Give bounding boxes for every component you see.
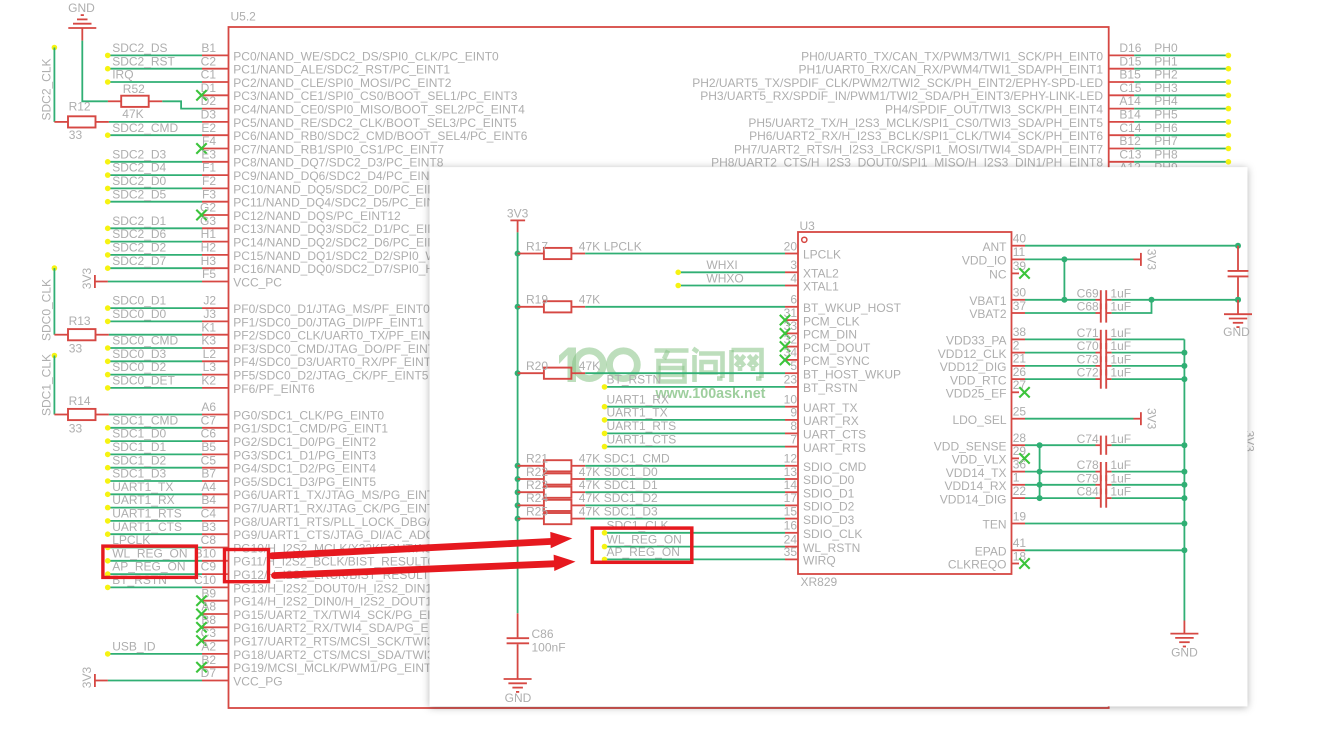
annotation arrow AP_REG_ON — [275, 555, 576, 576]
no-connect X on pin A8 — [196, 609, 206, 619]
U5.2 pin J3 (PF1) stub — [202, 320, 229, 322]
node SDC2_DS junction — [105, 53, 111, 59]
svg-text:PC5/NAND_RE/SDC2_CLK/BOOT_SEL3: PC5/NAND_RE/SDC2_CLK/BOOT_SEL3/PC_EINT5 — [233, 116, 517, 130]
svg-text:1uF: 1uF — [1110, 366, 1131, 380]
svg-text:SDC0_DET: SDC0_DET — [112, 374, 175, 388]
svg-text:33: 33 — [784, 319, 798, 333]
svg-text:C84: C84 — [1077, 485, 1099, 499]
wire net WHXO — [678, 285, 785, 287]
node WHXI junction — [675, 270, 681, 276]
svg-text:3V3: 3V3 — [1144, 408, 1158, 430]
wire net SDC1_D0 — [108, 440, 202, 442]
svg-text:47K: 47K — [579, 452, 600, 466]
node SDC2_D2 junction — [105, 252, 111, 258]
svg-text:SDC1_D2: SDC1_D2 — [112, 453, 166, 467]
node SDC0_D2 junction — [105, 372, 111, 378]
svg-text:1uF: 1uF — [1110, 286, 1131, 300]
svg-text:3V3: 3V3 — [80, 268, 94, 290]
svg-text:UART_TX: UART_TX — [803, 401, 857, 415]
capacitor C78 1uF — [1077, 458, 1131, 481]
svg-text:33: 33 — [69, 342, 83, 356]
U5.2 pin A12 (PH9) stub — [1109, 174, 1135, 176]
node 3V3 rail junction for R21 — [515, 463, 521, 469]
resistor R24 47K — [526, 491, 600, 511]
watermark 100ask logo — [559, 348, 637, 383]
svg-text:PG0/SDC1_CLK/PG_EINT0: PG0/SDC1_CLK/PG_EINT0 — [233, 408, 384, 422]
node SDC0_D3 junction — [105, 359, 111, 365]
svg-text:VCC_PC: VCC_PC — [233, 275, 282, 289]
svg-text:PCM_CLK: PCM_CLK — [803, 314, 860, 328]
U3 pin 6 (BT_WKUP_HOST) stub — [785, 306, 798, 308]
wire net AP_REG_ON — [605, 558, 786, 560]
svg-text:GND: GND — [68, 1, 95, 15]
power 3V3 supply (right) — [1134, 408, 1159, 430]
svg-text:PH7: PH7 — [1154, 134, 1178, 148]
wire R19 left lead — [518, 306, 544, 308]
wire net EPAD to rail — [1025, 549, 1184, 551]
svg-text:USB_ID: USB_ID — [112, 640, 156, 654]
node rail junction — [1181, 376, 1187, 382]
wire net SDC0_D2 — [108, 374, 202, 376]
U3 pin 38 (VDD33_PA) stub — [1012, 338, 1026, 340]
node SDC0_D1 junction — [105, 305, 111, 311]
U3 pin 26 (VDD_RTC) stub — [1012, 378, 1026, 380]
svg-text:L2: L2 — [203, 347, 217, 361]
U5.2 pin C5 (PG4) stub — [202, 467, 229, 469]
node VDD tie junction — [1037, 482, 1043, 488]
svg-text:SDIO_CMD: SDIO_CMD — [803, 460, 867, 474]
svg-text:3V3: 3V3 — [80, 667, 94, 689]
svg-text:1uF: 1uF — [1110, 326, 1131, 340]
svg-text:SDC1_D3: SDC1_D3 — [604, 504, 658, 518]
U5.2 pin L3 (PF5) stub — [202, 374, 229, 376]
U5.2 pin K2 (PF6) stub — [202, 387, 229, 389]
U5.2 pin C1 (PC2) stub — [202, 81, 229, 83]
svg-text:28: 28 — [1013, 431, 1027, 445]
U3 pin 30 (VBAT1) stub — [1012, 299, 1026, 301]
svg-text:47K: 47K — [579, 239, 600, 253]
svg-text:D7: D7 — [201, 666, 217, 680]
node SDC2_D3 junction — [105, 159, 111, 165]
svg-text:PH0/UART0_TX/CAN_TX/PWM3/TWI1_: PH0/UART0_TX/CAN_TX/PWM3/TWI1_SCK/PH_EIN… — [801, 49, 1103, 63]
svg-text:U3: U3 — [800, 219, 816, 233]
wire net PH7 — [1134, 148, 1228, 150]
wire C84 to rail — [1112, 497, 1185, 499]
svg-text:1uF: 1uF — [1110, 300, 1131, 314]
wire net USB_ID — [108, 653, 202, 655]
node UART1_TX junction — [602, 417, 608, 423]
wire R23 left lead — [518, 491, 544, 493]
svg-text:32: 32 — [784, 332, 798, 346]
U5.2 pin B1 (PC0) stub — [202, 54, 229, 56]
svg-text:D16: D16 — [1119, 41, 1141, 55]
svg-text:PG3/SDC1_D1/PG_EINT3: PG3/SDC1_D1/PG_EINT3 — [233, 448, 376, 462]
svg-text:R20: R20 — [526, 359, 548, 373]
svg-text:UART1_RX: UART1_RX — [607, 393, 669, 407]
node SDC2_CMD junction — [105, 132, 111, 138]
no-connect X on pin C3 — [196, 635, 206, 645]
node 3V3 rail junction for R20 — [515, 370, 521, 376]
svg-text:PC7/NAND_RB1/SPI0_CS1/PC_EINT7: PC7/NAND_RB1/SPI0_CS1/PC_EINT7 — [233, 142, 444, 156]
svg-text:SDC0_CMD: SDC0_CMD — [112, 334, 178, 348]
wire net to pin 14 — [585, 491, 785, 493]
svg-text:PH8: PH8 — [1154, 147, 1178, 161]
wire net BT_RSTN — [108, 586, 202, 588]
svg-text:33: 33 — [69, 128, 83, 142]
wire net WHXI — [678, 271, 785, 273]
svg-text:F2: F2 — [202, 174, 216, 188]
node SDC1_CMD junction — [105, 425, 111, 431]
wire R19 right lead to pin 6 — [571, 306, 585, 308]
svg-text:BT_HOST_WKUP: BT_HOST_WKUP — [803, 367, 901, 381]
wire net UART1_RTS — [108, 520, 202, 522]
svg-text:PF3/SDC0_CMD/JTAG_DO/PF_EINT3: PF3/SDC0_CMD/JTAG_DO/PF_EINT3 — [233, 342, 442, 356]
svg-text:1uF: 1uF — [1110, 339, 1131, 353]
svg-text:D3: D3 — [201, 108, 217, 122]
wire net LDO_SEL to 3V3 — [1025, 418, 1134, 420]
U5.2 pin A14 (PH4) stub — [1109, 108, 1135, 110]
U3 pin 33 (PCM_DIN) stub — [785, 332, 798, 334]
svg-text:C72: C72 — [1077, 366, 1099, 380]
svg-text:20: 20 — [784, 239, 798, 253]
svg-text:PC12/NAND_DQS/PC_EINT12: PC12/NAND_DQS/PC_EINT12 — [233, 209, 401, 223]
power 3V3 supply at VCC_PC — [80, 268, 108, 290]
U5.2 pin D7 (VCC_PG) stub — [202, 680, 229, 682]
no-connect X on pin B9 — [196, 596, 206, 606]
node PH9 junction — [1226, 172, 1232, 178]
svg-text:SDIO_D2: SDIO_D2 — [803, 500, 855, 514]
wire net VDD_RTC — [1025, 378, 1096, 380]
svg-text:A4: A4 — [201, 480, 216, 494]
svg-text:C2: C2 — [201, 54, 217, 68]
wire C79 to rail — [1112, 484, 1185, 486]
svg-text:PH2/UART5_TX/SPDIF_CLK/PWM2/TW: PH2/UART5_TX/SPDIF_CLK/PWM2/TWI2_SCK/PH_… — [692, 76, 1103, 90]
svg-text:27: 27 — [1013, 378, 1027, 392]
svg-text:WL_REG_ON: WL_REG_ON — [112, 546, 187, 560]
svg-text:PH6: PH6 — [1154, 121, 1178, 135]
wire R20 right lead to pin 5 — [571, 372, 585, 374]
svg-text:PG7/UART1_RX/JTAG_CK/PG_EINT7: PG7/UART1_RX/JTAG_CK/PG_EINT7 — [233, 502, 441, 516]
U3 pin 37 (VBAT2) stub — [1012, 312, 1026, 314]
svg-text:PG5/SDC1_D3/PG_EINT5: PG5/SDC1_D3/PG_EINT5 — [233, 475, 376, 489]
U5.2 pin B3 (PG9) stub — [202, 533, 229, 535]
svg-text:UART1_CTS: UART1_CTS — [607, 432, 677, 446]
wire net to pin 13 — [585, 478, 785, 480]
wire net SDC0_D0 — [108, 320, 202, 322]
wire right rail vertical — [1183, 339, 1185, 620]
node SDC2_D0 junction — [105, 186, 111, 192]
wire R23 right lead to pin 14 — [571, 491, 585, 493]
svg-text:F1: F1 — [202, 161, 216, 175]
svg-text:5: 5 — [790, 359, 797, 373]
U5.2 pin C8 (PG10) stub — [202, 547, 229, 549]
svg-text:SDC1_CMD: SDC1_CMD — [112, 413, 178, 427]
U3 pin 8 (UART_CTS) stub — [785, 432, 798, 434]
svg-text:100nF: 100nF — [532, 640, 566, 654]
wire R17 left lead — [518, 253, 544, 255]
U5.2 pin D1 (PC3) stub — [202, 94, 229, 96]
node UART1_CTS junction — [105, 531, 111, 537]
annotation box around WL_REG_ON/AP_REG_ON (left) — [103, 546, 196, 577]
wire net ANT — [1025, 245, 1238, 247]
wire R25 left lead — [518, 518, 544, 520]
svg-text:VDD33_PA: VDD33_PA — [946, 334, 1006, 348]
svg-text:NC: NC — [989, 268, 1007, 282]
capacitor C74 1uF — [1077, 432, 1131, 455]
svg-text:PCM_DOUT: PCM_DOUT — [803, 341, 871, 355]
svg-text:BT_WKUP_HOST: BT_WKUP_HOST — [803, 301, 902, 315]
svg-text:A6: A6 — [201, 400, 216, 414]
wire net to pin 5 — [585, 372, 785, 374]
svg-text:PG16/UART2_RX/TWI4_SDA/PG_EINT: PG16/UART2_RX/TWI4_SDA/PG_EINT16 — [233, 621, 461, 635]
svg-text:C74: C74 — [1077, 432, 1099, 446]
svg-text:34: 34 — [784, 346, 798, 360]
svg-text:SDC1_D1: SDC1_D1 — [112, 440, 166, 454]
svg-text:37: 37 — [1013, 299, 1027, 313]
svg-text:C1: C1 — [201, 68, 217, 82]
svg-text:R14: R14 — [69, 394, 91, 408]
capacitor C86 100nF — [507, 613, 566, 679]
svg-text:C68: C68 — [1077, 300, 1099, 314]
wire net VDD_IO to 3V3 — [1025, 258, 1134, 260]
node USB_ID junction — [105, 651, 111, 657]
svg-text:PC13/NAND_DQ3/SDC2_D1/PC_EINT1: PC13/NAND_DQ3/SDC2_D1/PC_EINT13 — [233, 222, 457, 236]
resistor R21 47K — [526, 452, 600, 472]
svg-text:C8: C8 — [201, 533, 217, 547]
wire net UART1_RX — [108, 507, 202, 509]
U5.2 pin A4 (PG6) stub — [202, 493, 229, 495]
no-connect X on pin B2 — [196, 662, 206, 672]
svg-text:SDC1_D1: SDC1_D1 — [604, 478, 658, 492]
svg-text:1uF: 1uF — [1110, 471, 1131, 485]
U3 pin 25 (LDO_SEL) stub — [1012, 418, 1026, 420]
svg-text:R21: R21 — [526, 452, 548, 466]
U5.2 pin D3 (PC5) stub — [202, 121, 229, 123]
wire VDD_SENSE tie vertical — [1039, 445, 1041, 498]
wire R12 to pin D3 — [109, 121, 202, 123]
svg-text:36: 36 — [1013, 457, 1027, 471]
wire net SDC1_D1 — [108, 453, 202, 455]
svg-text:47K: 47K — [579, 465, 600, 479]
wire net to pin 20 — [585, 253, 785, 255]
wire R52 right lead — [149, 100, 163, 102]
svg-text:PF0/SDC0_D1/JTAG_MS/PF_EINT0: PF0/SDC0_D1/JTAG_MS/PF_EINT0 — [233, 302, 430, 316]
svg-text:PH4: PH4 — [1154, 94, 1178, 108]
node rail junction — [1181, 469, 1187, 475]
svg-text:1uF: 1uF — [1110, 432, 1131, 446]
svg-text:H2: H2 — [201, 241, 217, 255]
capacitor C79 1uF — [1077, 471, 1131, 494]
node SDC1_D2 junction — [105, 465, 111, 471]
node SDC0_DET junction — [105, 385, 111, 391]
U3 pin 5 (BT_HOST_WKUP) stub — [785, 372, 798, 374]
svg-text:B7: B7 — [201, 467, 216, 481]
svg-text:UART1_CTS: UART1_CTS — [112, 520, 182, 534]
svg-text:F3: F3 — [202, 187, 216, 201]
U3 pin 12 (SDIO_CMD) stub — [785, 465, 798, 467]
wire net SDC2_D3 — [108, 161, 202, 163]
wire net to pin 15 — [585, 518, 785, 520]
wire net VDD14_RX — [1025, 484, 1096, 486]
svg-text:LDO_SEL: LDO_SEL — [952, 413, 1006, 427]
no-connect X on pin G2 — [196, 210, 206, 220]
U3 pin 3 (XTAL2) stub — [785, 271, 798, 273]
wire R14 left lead — [54, 414, 68, 416]
svg-text:26: 26 — [1013, 365, 1027, 379]
svg-text:VDD25_EF: VDD25_EF — [946, 387, 1007, 401]
svg-text:BT_RSTN: BT_RSTN — [112, 573, 167, 587]
svg-text:UART1_RX: UART1_RX — [112, 493, 174, 507]
svg-text:R13: R13 — [69, 314, 91, 328]
U5.2 pin B15 (PH2) stub — [1109, 81, 1135, 83]
svg-text:IRQ: IRQ — [112, 68, 133, 82]
svg-text:PH0: PH0 — [1154, 41, 1178, 55]
svg-text:GND: GND — [1171, 645, 1198, 659]
resistor R22 47K — [526, 465, 600, 485]
node PH2 junction — [1226, 79, 1232, 85]
svg-text:13: 13 — [784, 465, 798, 479]
svg-text:VCC_PG: VCC_PG — [233, 674, 282, 688]
svg-text:41: 41 — [1013, 536, 1027, 550]
svg-text:R52: R52 — [123, 82, 145, 96]
svg-text:WIRQ: WIRQ — [803, 554, 836, 568]
svg-text:2: 2 — [1013, 338, 1020, 352]
U3 pin 4 (XTAL1) stub — [785, 285, 798, 287]
wire R52 to pin D2 — [162, 101, 202, 108]
node rail junction — [1181, 482, 1187, 488]
svg-text:GND: GND — [1223, 325, 1250, 339]
svg-text:SDC2_D4: SDC2_D4 — [112, 161, 166, 175]
svg-text:C71: C71 — [1077, 326, 1099, 340]
svg-text:SDC1_D0: SDC1_D0 — [112, 427, 166, 441]
svg-text:VDD14_TX: VDD14_TX — [946, 466, 1007, 480]
svg-text:12: 12 — [784, 452, 798, 466]
wire net WL_REG_ON — [605, 546, 786, 548]
ground GND (below C86) — [504, 679, 532, 705]
svg-text:PC9/NAND_DQ6/SDC2_D4/PC_EINT9: PC9/NAND_DQ6/SDC2_D4/PC_EINT9 — [233, 169, 443, 183]
svg-text:11: 11 — [1013, 245, 1026, 259]
wire SDC2_CLK vertical — [53, 48, 55, 122]
svg-text:UART1_TX: UART1_TX — [607, 406, 668, 420]
svg-text:SDC2_D7: SDC2_D7 — [112, 254, 166, 268]
capacitor C71 1uF — [1077, 326, 1131, 349]
svg-text:LPCLK: LPCLK — [604, 239, 642, 253]
wire net UART1_RX — [605, 406, 786, 408]
svg-text:PF1/SDC0_D0/JTAG_DI/PF_EINT1: PF1/SDC0_D0/JTAG_DI/PF_EINT1 — [233, 315, 424, 329]
svg-text:R19: R19 — [526, 293, 548, 307]
U5.2 pin B10 (PG11) stub — [202, 560, 229, 562]
svg-text:PF2/SDC0_CLK/UART0_TX/PF_EINT2: PF2/SDC0_CLK/UART0_TX/PF_EINT2 — [233, 329, 445, 343]
svg-text:PH3: PH3 — [1154, 81, 1178, 95]
svg-text:29: 29 — [1013, 444, 1027, 458]
wire net VDD12_DIG — [1025, 365, 1096, 367]
svg-text:L3: L3 — [203, 360, 217, 374]
node ANT junction — [1235, 243, 1241, 249]
svg-text:47K: 47K — [122, 107, 143, 121]
svg-text:PG15/UART2_TX/TWI4_SCK/PG_EINT: PG15/UART2_TX/TWI4_SCK/PG_EINT15 — [233, 608, 460, 622]
wire R22 right lead to pin 13 — [571, 478, 585, 480]
svg-text:VDD14_DIG: VDD14_DIG — [940, 492, 1007, 506]
wire R21 right lead to pin 12 — [571, 465, 585, 467]
node rail junction — [1181, 442, 1187, 448]
svg-text:PG6/UART1_TX/JTAG_MS/PG_EINT6: PG6/UART1_TX/JTAG_MS/PG_EINT6 — [233, 488, 441, 502]
U5.2 pin F5 (VCC_PC) stub — [202, 281, 229, 283]
svg-text:4: 4 — [790, 271, 797, 285]
node SDC2_D4 junction — [105, 172, 111, 178]
wire R52 left lead — [108, 100, 121, 102]
U3 pin 19 (TEN) stub — [1012, 523, 1026, 525]
svg-text:1uF: 1uF — [1110, 485, 1131, 499]
svg-text:22: 22 — [1013, 484, 1027, 498]
U3 pin 7 (UART_RTS) stub — [785, 446, 798, 448]
wire net VDD33_PA — [1025, 338, 1096, 340]
capacitor C73 1uF — [1077, 353, 1131, 376]
svg-text:J3: J3 — [203, 307, 216, 321]
svg-text:PH1/UART0_RX/CAN_RX/PWM4/TWI1_: PH1/UART0_RX/CAN_RX/PWM4/TWI1_SDA/PH_EIN… — [798, 63, 1103, 77]
U5.2 pin B7 (PG5) stub — [202, 480, 229, 482]
annotation box around PG11/PG12 — [225, 550, 269, 582]
svg-text:R22: R22 — [526, 465, 548, 479]
svg-text:SDC2_D0: SDC2_D0 — [112, 174, 166, 188]
resistor R14 — [68, 394, 96, 436]
svg-text:1: 1 — [1013, 471, 1020, 485]
svg-text:C73: C73 — [1077, 353, 1099, 367]
svg-text:SDIO_D1: SDIO_D1 — [803, 486, 855, 500]
U5.2 pin C3 (PG17) stub — [202, 640, 229, 642]
svg-text:SDIO_D0: SDIO_D0 — [803, 473, 855, 487]
svg-text:47K: 47K — [579, 478, 600, 492]
svg-text:PH2: PH2 — [1154, 68, 1178, 82]
svg-text:C13: C13 — [1119, 147, 1141, 161]
svg-text:40: 40 — [1013, 232, 1027, 246]
U5.2 pin H1 (PC14) stub — [202, 241, 229, 243]
svg-text:18: 18 — [1013, 549, 1027, 563]
U3 pin 2 (VDD12_CLK) stub — [1012, 352, 1026, 354]
U3 pin 10 (UART_TX) stub — [785, 406, 798, 408]
svg-text:U5.2: U5.2 — [231, 10, 257, 24]
resistor R19 47K — [526, 293, 600, 313]
svg-text:PF5/SDC0_D2/JTAG_CK/PF_EINT5: PF5/SDC0_D2/JTAG_CK/PF_EINT5 — [233, 369, 428, 383]
U5.2 pin F1 (PC9) stub — [202, 174, 229, 176]
node PH3 junction — [1226, 93, 1232, 99]
node PH8 junction — [1226, 159, 1232, 165]
svg-text:SDC0_D0: SDC0_D0 — [112, 307, 166, 321]
wire net SDC2_D5 — [108, 201, 202, 203]
no-connect X on pin 27 — [1019, 387, 1029, 397]
wire R25 right lead to pin 15 — [571, 518, 585, 520]
U5.2 pin A8 (PG15) stub — [202, 613, 229, 615]
svg-text:31: 31 — [784, 306, 798, 320]
wire SDC0_CLK vertical — [53, 268, 55, 335]
U5.2 pin B8 (PG16) stub — [202, 626, 229, 628]
svg-text:A14: A14 — [1119, 94, 1141, 108]
node SDC1_D0 junction — [105, 438, 111, 444]
svg-text:UART1_RTS: UART1_RTS — [607, 419, 677, 433]
node ANT cap bottom junction — [1235, 297, 1241, 303]
node UART1_RTS junction — [105, 518, 111, 524]
wire R20 left lead — [518, 372, 544, 374]
svg-text:C79: C79 — [1077, 471, 1099, 485]
svg-text:8: 8 — [790, 419, 797, 433]
node SDC1_D1 junction — [105, 452, 111, 458]
no-connect X on pin 32 — [780, 341, 790, 351]
svg-text:47K: 47K — [579, 491, 600, 505]
svg-text:www.100ask.net: www.100ask.net — [655, 386, 766, 402]
svg-text:3V3: 3V3 — [507, 206, 529, 220]
resistor R52 — [121, 82, 149, 121]
wire net UART1_RTS — [605, 432, 786, 434]
wire net SDC1_CMD — [108, 427, 202, 429]
